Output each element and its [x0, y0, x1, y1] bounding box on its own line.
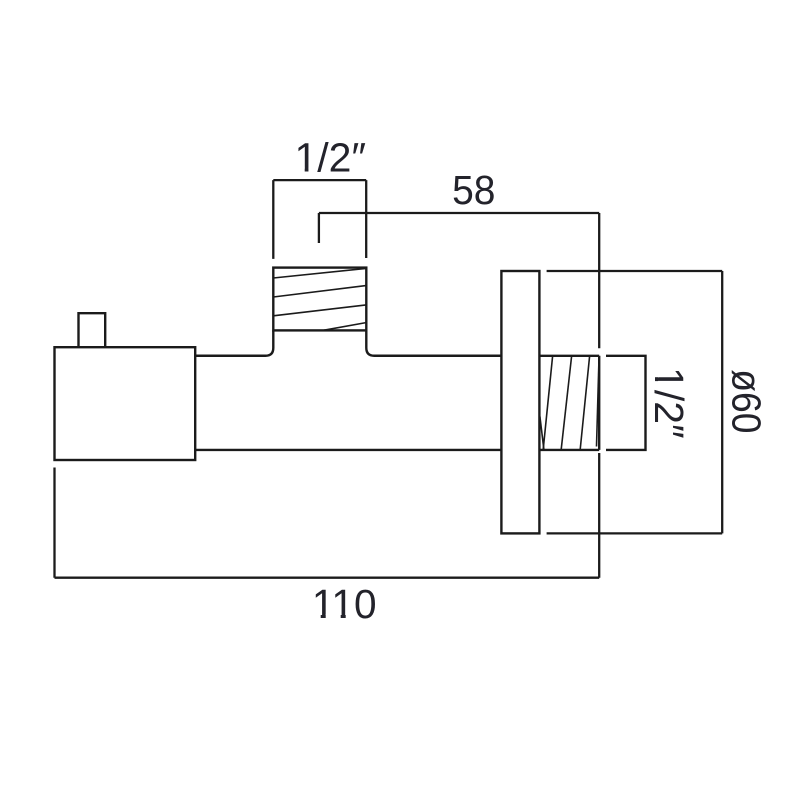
svg-text:58: 58 [452, 168, 495, 213]
dimension 1/2 inch top: dimension line [273, 179, 366, 181]
label 1/2 inch (outlet, rotated) [646, 367, 692, 439]
label 110 [312, 581, 377, 627]
dimension o60: bottom extension line [547, 532, 723, 534]
dimension 1/2 inch top: right extension line [365, 180, 367, 258]
white masks removing Liberation Sans foot serif on digit 1 (to match DIN-style footless 1) [296, 168, 659, 619]
valve body top outline left of inlet [195, 330, 273, 355]
dimension 110: left extension line [53, 468, 55, 578]
wall flange [501, 271, 539, 533]
valve body bottom outline [195, 449, 501, 451]
svg-text:1/2″: 1/2″ [646, 367, 692, 439]
dimension 58 / 110: right extension line upper segment [598, 213, 600, 348]
inlet thread hatch lines [273, 268, 366, 330]
knob on handle [79, 313, 106, 347]
dimension o60: dimension line [721, 271, 723, 533]
svg-text:110: 110 [312, 581, 377, 627]
label 58 [452, 168, 495, 213]
dimension 1/2 inch top: left extension line [272, 180, 274, 259]
inlet thread block [273, 268, 366, 331]
outlet thread hatch lines [540, 356, 599, 449]
label o60 (rotated) [723, 369, 768, 433]
dimension 110: dimension line [55, 577, 600, 579]
svg-text:1/2″: 1/2″ [294, 134, 366, 180]
svg-text:ø60: ø60 [723, 369, 768, 433]
valve body top outline right of inlet [366, 330, 501, 355]
dimension 58: dimension line [319, 212, 599, 214]
outlet thread block [539, 356, 599, 450]
outlet end cap [606, 356, 646, 450]
dimension o60: top extension line [547, 270, 723, 272]
valve handle body [55, 347, 196, 460]
dimension 58: left tick into inlet centre [318, 213, 320, 243]
label 1/2 inch (inlet, top) [294, 134, 366, 180]
dimension 110: right extension line lower segment [598, 453, 600, 578]
